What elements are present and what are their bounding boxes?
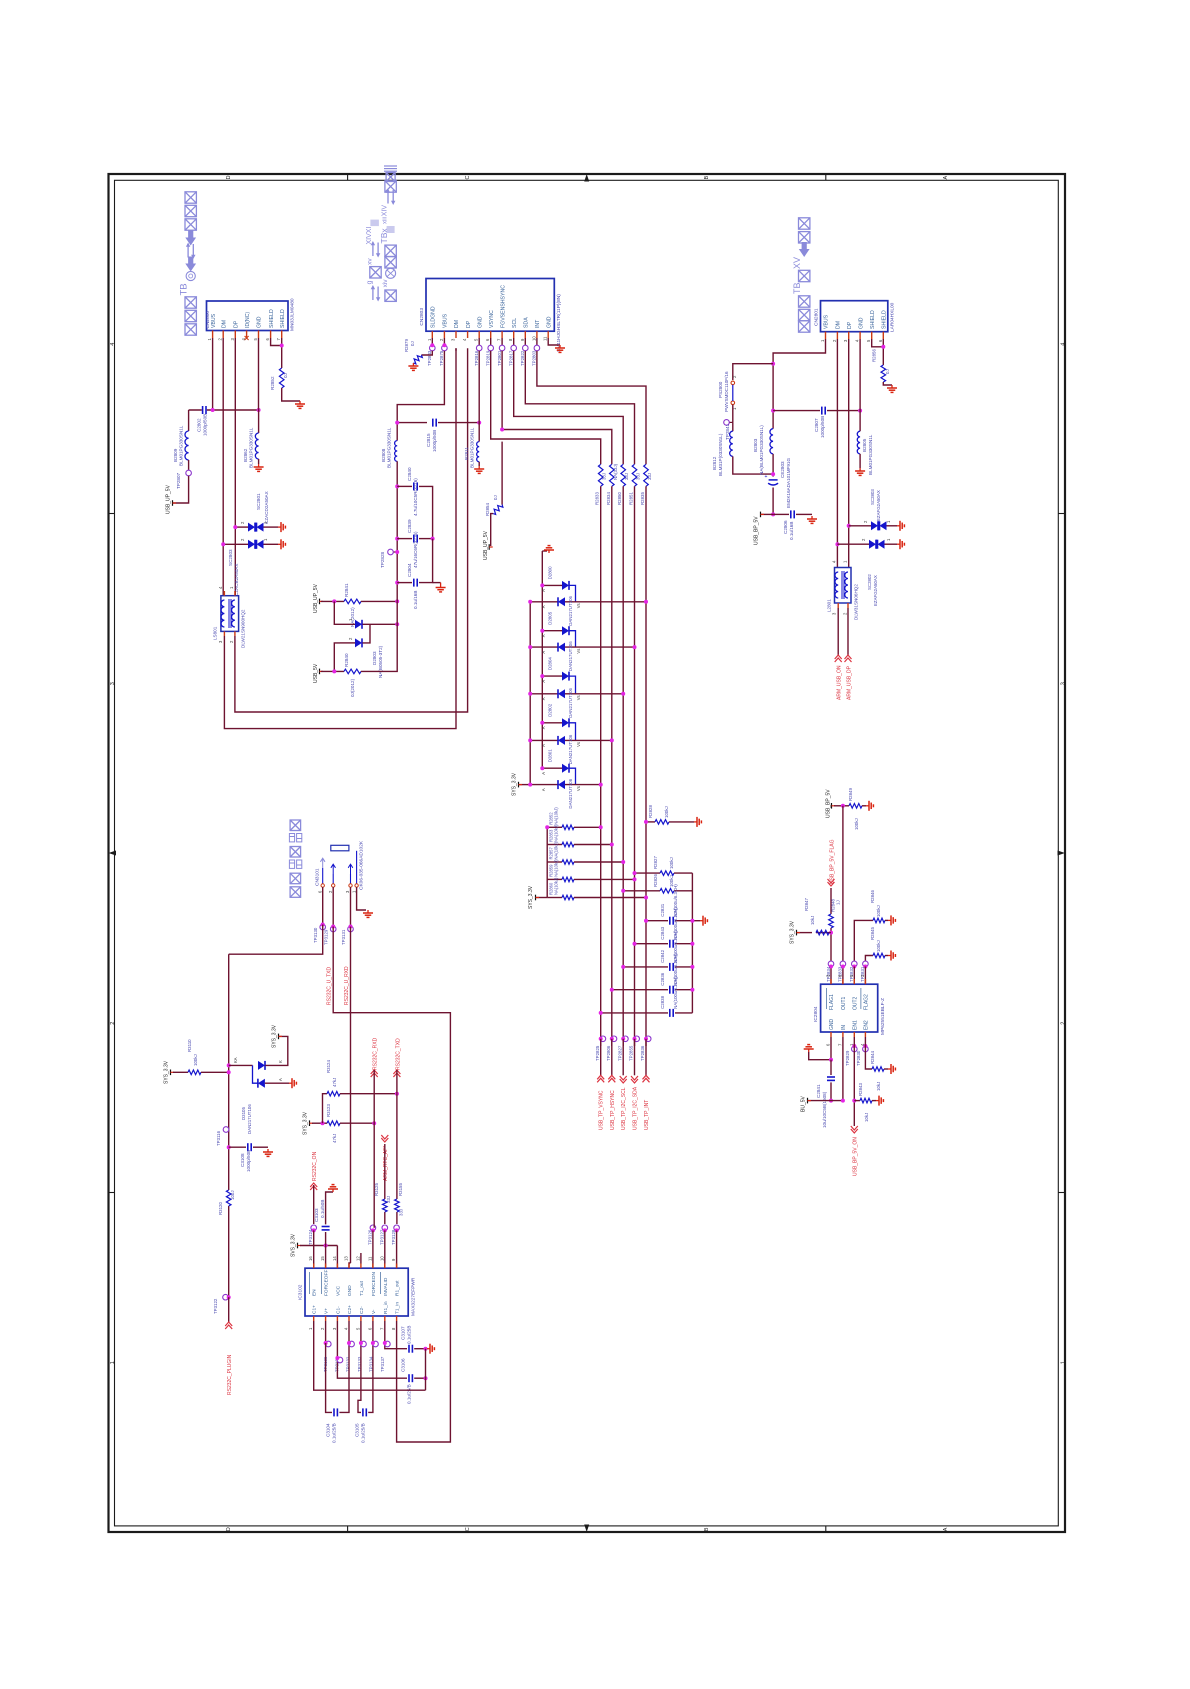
capacitor C2838 (601, 1012, 668, 1014)
junction (847, 524, 851, 528)
power net USB_BP_5V at IC2804 (831, 803, 833, 809)
junction (633, 645, 637, 649)
wire cap rail (691, 873, 693, 1013)
svg-text:DAN217UT106: DAN217UT106 (568, 595, 573, 625)
junction (771, 409, 775, 413)
ground (278, 526, 281, 528)
svg-text:B2812: B2812 (712, 456, 717, 470)
svg-text:ARM_RTC_AF*: ARM_RTC_AF* (383, 1146, 389, 1181)
test point TP2807 (188, 460, 190, 470)
svg-text:B2805: B2805 (862, 438, 867, 452)
dual diode D2804 (542, 675, 562, 677)
wire DM CN2800 pin2 (222, 338, 224, 596)
wire bus (502, 351, 612, 465)
svg-text:XIV: XIV (382, 205, 389, 217)
svg-text:2: 2 (1061, 1022, 1067, 1025)
svg-text:EZAFG2A50AX: EZAFG2A50AX (873, 575, 878, 606)
svg-text:C3107: C3107 (401, 1326, 406, 1340)
svg-text:GND: GND (858, 317, 864, 329)
wire (396, 1094, 398, 1199)
junction (227, 1063, 231, 1067)
svg-text:USB_BP_5V_ON: USB_BP_5V_ON (853, 1137, 859, 1176)
svg-text:TB: TB (179, 283, 190, 295)
junction (227, 1295, 231, 1299)
svg-text:Vs: Vs (576, 603, 581, 608)
svg-text:14: 14 (332, 1256, 337, 1261)
wire (384, 1144, 386, 1199)
junction (324, 1244, 328, 1248)
svg-text:SYS_3.3V: SYS_3.3V (303, 1111, 309, 1135)
svg-text:SYS_3.3V: SYS_3.3V (272, 1024, 278, 1048)
svg-text:XV: XV (792, 257, 802, 269)
wire bus (622, 486, 624, 1046)
svg-text:TP2801: TP2801 (497, 350, 502, 366)
svg-text:DAN217UT106: DAN217UT106 (568, 641, 573, 671)
wire bus (634, 486, 636, 1046)
junction (395, 550, 399, 554)
svg-text:D: D (226, 1527, 232, 1531)
ground (888, 955, 891, 957)
svg-text:B2809: B2809 (173, 448, 178, 462)
power net SYS_3.3V at R3123 (309, 1120, 311, 1126)
svg-text:C2806: C2806 (783, 520, 788, 534)
svg-text:B2862: B2862 (243, 448, 248, 462)
wire RXD (350, 927, 352, 1264)
placeholder text block 2 (384, 165, 397, 167)
wire pin7 (385, 1321, 407, 1349)
svg-text:CN2803: CN2803 (419, 308, 425, 326)
svg-text:DAN217UT106: DAN217UT106 (568, 734, 573, 764)
resistor R3125 (383, 1199, 388, 1212)
dual diode D2802 (542, 722, 562, 724)
svg-text:USB_BP_5V_FLAG: USB_BP_5V_FLAG (830, 839, 836, 884)
svg-text:NA(10kJ): NA(10kJ) (554, 877, 559, 895)
wire (312, 1122, 327, 1124)
wire FLAG1 net (830, 888, 832, 914)
power net USB_UP_5V at R2841 (319, 599, 321, 605)
svg-text:A: A (541, 772, 546, 775)
svg-text:NA(10kJ): NA(10kJ) (554, 841, 559, 859)
wire left rail (228, 954, 230, 1190)
svg-text:TP2832: TP2832 (849, 966, 854, 982)
svg-text:R2847: R2847 (804, 898, 809, 911)
wire bus (514, 351, 624, 465)
junction (500, 428, 504, 432)
junction (621, 692, 625, 696)
svg-text:B2803: B2803 (753, 438, 758, 452)
svg-text:C3104: C3104 (326, 1423, 331, 1437)
wire (313, 1230, 315, 1268)
frame tick (109, 1192, 115, 1194)
wire (334, 643, 340, 672)
wire pin2 (325, 1321, 327, 1341)
svg-text:TP2834: TP2834 (826, 966, 831, 982)
svg-text:T1_out: T1_out (359, 1280, 365, 1296)
junction (424, 1347, 428, 1351)
net label ARM_USB_ON (837, 608, 839, 655)
svg-text:A: A (541, 589, 546, 592)
svg-text:D2800: D2800 (548, 566, 553, 579)
ground (866, 805, 869, 807)
junction (621, 860, 625, 864)
svg-text:0.1u/16B: 0.1u/16B (789, 522, 794, 540)
svg-text:DM: DM (836, 321, 842, 329)
junction (395, 599, 399, 603)
resistor R2853 (547, 844, 562, 846)
svg-text:TP3124: TP3124 (308, 1229, 313, 1245)
svg-text:C: C (465, 1527, 471, 1531)
svg-text:DAN217UT106: DAN217UT106 (568, 778, 573, 808)
capacitor C2802 (202, 409, 207, 411)
wire TXD loop (333, 927, 450, 1443)
power net SYS_3.3V at R3110 (170, 1070, 172, 1076)
svg-text:C2836: C2836 (660, 972, 665, 985)
svg-text:TP2819: TP2819 (486, 350, 491, 366)
junction (690, 988, 694, 992)
svg-text:4.7u/10C5R(3216): 4.7u/10C5R(3216) (413, 478, 418, 516)
junction (599, 1011, 603, 1015)
junction (424, 1376, 428, 1380)
svg-text:A: A (541, 680, 546, 683)
svg-text:BLM01PG330SN1L: BLM01PG330SN1L (249, 427, 254, 468)
test point TP2841 (732, 405, 734, 423)
junction (599, 1037, 603, 1041)
svg-text:FLAG1: FLAG1 (829, 994, 835, 1010)
svg-text:TP2822: TP2822 (520, 350, 525, 366)
svg-text:USB_UP_5V: USB_UP_5V (166, 484, 172, 514)
electrolytic capacitor CE2803 (772, 479, 774, 485)
test point TP3122 (223, 1294, 229, 1300)
svg-text:TP2827: TP2827 (617, 1045, 622, 1061)
svg-text:USB_TP_HSYNC: USB_TP_HSYNC (610, 1090, 616, 1130)
capacitor C3106 (408, 1377, 413, 1379)
power net SYS_3.3V at R2847 (797, 932, 812, 934)
svg-text:R2828: R2828 (648, 805, 653, 818)
ground (299, 401, 301, 404)
capacitor C2831 (646, 920, 668, 922)
wire DP CN2801 (848, 339, 850, 568)
svg-text:C1+: C1+ (312, 1305, 318, 1314)
svg-text:33J: 33J (624, 473, 629, 480)
svg-text:10u/10C5B(1608): 10u/10C5B(1608) (822, 1091, 827, 1128)
svg-text:R2835: R2835 (640, 492, 645, 505)
test point TP2801 (501, 338, 503, 345)
ferrite bead B2809 (185, 431, 189, 460)
svg-text:47u/16C6R(3216): 47u/16C6R(3216) (413, 531, 418, 568)
power net SYS_3.3V diode rail (519, 784, 530, 786)
svg-text:DP: DP (847, 321, 853, 329)
junction (633, 1037, 637, 1041)
svg-text:IC2804: IC2804 (813, 1006, 819, 1022)
svg-text:PWVSMDC110F/16: PWVSMDC110F/16 (724, 371, 729, 412)
junction (633, 942, 637, 946)
net label USB_TP_I2C_SCL (622, 1039, 624, 1076)
test point TP2830 (863, 1046, 869, 1052)
no-connect pin4 CN2800 (245, 336, 249, 340)
wire (321, 600, 344, 602)
svg-text:xv: xv (367, 258, 374, 265)
svg-text:C2841: C2841 (816, 1084, 821, 1098)
wire OUT1 net (842, 806, 844, 984)
resistor R2852 (279, 368, 284, 388)
svg-text:XIVXI: XIVXI (366, 227, 373, 245)
junction (477, 421, 481, 425)
svg-text:TP2841: TP2841 (725, 423, 730, 440)
wire pin6 (368, 1321, 373, 1412)
svg-text:10kJ: 10kJ (864, 1113, 869, 1122)
svg-text:C2840: C2840 (407, 467, 412, 481)
svg-text:RS232C_TXD: RS232C_TXD (396, 1038, 402, 1070)
test point TP3131 (350, 887, 352, 926)
junction (332, 599, 336, 603)
svg-text:SYS_3.3V: SYS_3.3V (790, 920, 796, 944)
power net USB_UP_5V (172, 500, 174, 506)
ground (427, 1348, 430, 1350)
resistor R2833 (598, 464, 603, 486)
svg-text:33J: 33J (399, 1209, 404, 1216)
junction (372, 1121, 376, 1125)
svg-text:1: 1 (110, 1361, 116, 1364)
resistor R3110 (188, 1070, 201, 1075)
test point TP2822 (524, 338, 526, 345)
wire (372, 1230, 374, 1268)
frame tick (109, 513, 115, 515)
test point TP3129 (332, 887, 334, 926)
connector CN2801 (821, 301, 888, 332)
svg-text:DP: DP (234, 320, 240, 328)
svg-text:0J: 0J (885, 369, 890, 374)
junction (349, 925, 353, 929)
svg-text:3: 3 (1061, 682, 1067, 685)
svg-text:TP2875: TP2875 (439, 350, 444, 366)
svg-text:C2843: C2843 (660, 926, 665, 939)
junction (771, 472, 775, 476)
junction (395, 421, 399, 425)
svg-text:ARM_USB_ON: ARM_USB_ON (837, 665, 843, 700)
svg-text:SYS_3.3V: SYS_3.3V (164, 1060, 170, 1084)
dual diode D2801 (542, 767, 562, 769)
svg-text:DLW21SN900HQ2: DLW21SN900HQ2 (241, 609, 246, 648)
svg-text:1000p/50B: 1000p/50B (246, 1150, 251, 1172)
junction (280, 344, 284, 348)
junction (621, 965, 625, 969)
junction (841, 804, 845, 808)
junction (852, 965, 856, 969)
svg-text:R3155: R3155 (398, 1183, 403, 1196)
svg-text:TP3130: TP3130 (313, 927, 318, 943)
ground (897, 543, 900, 545)
test point TP2875 (443, 338, 445, 345)
svg-text:USB_BP_5V: USB_BP_5V (754, 516, 760, 545)
resistor R2844 (872, 1067, 884, 1072)
svg-text:NA(100u/6.3CH): NA(100u/6.3CH) (673, 976, 678, 1009)
svg-text:MP62551EBLF-Z: MP62551EBLF-Z (880, 998, 886, 1035)
svg-text:100kJ: 100kJ (854, 818, 859, 830)
svg-text:0J: 0J (410, 341, 415, 346)
svg-text:g: g (367, 280, 374, 284)
capacitor C2840 (397, 485, 412, 487)
wire pull-up rail (546, 827, 548, 897)
svg-text:0J(2012): 0J(2012) (350, 678, 355, 697)
IC IC3102 (305, 1268, 408, 1316)
resistor R3120 (226, 1190, 231, 1206)
svg-text:A: A (541, 634, 546, 637)
junction (863, 1044, 867, 1048)
junction (395, 581, 399, 585)
svg-text:CZACD2A50AX: CZACD2A50AX (264, 491, 269, 524)
junction (227, 1145, 231, 1149)
test point TP2829 (852, 1046, 858, 1052)
svg-text:B2808: B2808 (381, 448, 386, 462)
svg-text:R2854: R2854 (485, 503, 490, 516)
svg-text:xiv: xiv (382, 279, 389, 288)
junction (841, 965, 845, 969)
ground (267, 1149, 269, 1152)
junction (829, 1099, 833, 1103)
power net SYS_3.3V at D3105 (278, 1034, 280, 1040)
svg-text:D2804: D2804 (548, 657, 553, 670)
svg-text:USB_TP_INT: USB_TP_INT (644, 1100, 650, 1130)
svg-text:SM11HJGHSLTR(11P)(8N): SM11HJGHSLTR(11P)(8N) (556, 294, 562, 352)
svg-text:R2841: R2841 (344, 583, 349, 597)
resistor R2860 (547, 897, 562, 899)
resistor R2851 (632, 464, 637, 486)
junction (221, 542, 225, 546)
svg-text:Vs: Vs (576, 742, 581, 747)
svg-text:NA(BLM01PG330SN1L): NA(BLM01PG330SN1L) (759, 425, 764, 475)
svg-text:2: 2 (110, 1022, 116, 1025)
wire LS801 pin3 loop (224, 348, 456, 728)
svg-text:GND: GND (546, 316, 552, 328)
svg-text:R2844: R2844 (870, 1051, 875, 1064)
capacitor C2842 (623, 966, 668, 968)
placeholder text block 1 (185, 192, 196, 203)
svg-text:R2850: R2850 (617, 492, 622, 505)
capacitor C3103 (325, 1232, 327, 1246)
junction (858, 409, 862, 413)
wire plugin sense (229, 925, 323, 955)
test point TP2833 (840, 961, 846, 967)
svg-text:BLM31P(0330SN1L): BLM31P(0330SN1L) (718, 433, 723, 476)
wire (772, 488, 774, 515)
svg-text:SC2802: SC2802 (867, 574, 872, 590)
svg-text:0.1u/50B: 0.1u/50B (320, 1200, 325, 1218)
svg-text:A: A (943, 176, 949, 180)
svg-text:NA(10kJ): NA(10kJ) (554, 824, 559, 842)
junction (211, 408, 215, 412)
svg-text:LS801: LS801 (213, 626, 218, 640)
ground (888, 1068, 891, 1070)
wire DP CN2800 pin3 (234, 338, 236, 596)
svg-text:4: 4 (1061, 343, 1067, 346)
junction (690, 919, 694, 923)
resistor R3155 (395, 1199, 400, 1212)
junction (829, 931, 833, 935)
net label USB_TP_INT (645, 1039, 647, 1076)
fuse PS2800 (731, 381, 735, 385)
svg-text:FLAG2: FLAG2 (863, 994, 869, 1010)
ground (332, 1189, 334, 1192)
svg-text:RS232C_PLUGIN: RS232C_PLUGIN (227, 1354, 233, 1395)
junction (528, 783, 532, 787)
svg-text:MAX3227EFPWR: MAX3227EFPWR (411, 1277, 417, 1316)
svg-text:C3105: C3105 (354, 1423, 359, 1437)
net label USB_TP_HSYNC (611, 1039, 613, 1076)
svg-text:NA(B0505-3T2): NA(B0505-3T2) (378, 645, 383, 678)
wire GND pin6 (809, 1037, 831, 1060)
junction (312, 1228, 316, 1232)
IC IC2804 (821, 984, 878, 1032)
svg-text:TP3132: TP3132 (346, 1356, 351, 1372)
capacitor C3107 (408, 1348, 413, 1350)
svg-text:SYS_3.3V: SYS_3.3V (512, 772, 518, 796)
svg-text:PS2800: PS2800 (718, 381, 723, 398)
svg-text:CE2803: CE2803 (780, 461, 785, 478)
test point TP2836 (645, 1036, 651, 1042)
junction (690, 942, 694, 946)
junction (771, 512, 775, 516)
resistor R2845 (865, 956, 873, 964)
test point TP2816 (478, 338, 480, 345)
wire to shield ground (282, 388, 300, 401)
svg-text:Vs: Vs (576, 695, 581, 700)
svg-text:3: 3 (110, 682, 116, 685)
svg-text:C2838: C2838 (660, 995, 665, 1008)
svg-text:SLDGND: SLDGND (431, 306, 437, 328)
junction (331, 925, 335, 929)
dual diode SC2803a (223, 543, 248, 545)
ground (859, 468, 861, 471)
resistor R2843 (854, 1100, 860, 1102)
resistor R3124 (327, 1091, 340, 1096)
junction (528, 738, 532, 742)
junction (540, 766, 544, 770)
wire GND CN2801 pin4 (859, 339, 861, 431)
svg-text:D2805: D2805 (548, 611, 553, 624)
resistor R2848 (829, 914, 834, 928)
svg-text:SHIELD: SHIELD (882, 310, 888, 329)
ferrite bead B2808 (395, 441, 398, 462)
junction (829, 1058, 833, 1062)
resistor R2846 (854, 920, 873, 963)
svg-text:D2802: D2802 (548, 703, 553, 716)
svg-text:L2801: L2801 (827, 599, 832, 612)
svg-text:FORCEOFF: FORCEOFF (324, 1270, 330, 1296)
capacitor C3104 (333, 1411, 338, 1413)
svg-text:33J: 33J (386, 1196, 391, 1203)
svg-text:K: K (278, 1060, 283, 1063)
junction (332, 669, 336, 673)
wire pin3 to C3106 (337, 1375, 407, 1378)
frame center arrow right (1058, 851, 1066, 856)
svg-text:GND: GND (477, 316, 483, 328)
junction (227, 1070, 231, 1074)
svg-text:0J: 0J (493, 495, 498, 500)
junction (371, 1341, 375, 1345)
svg-text:TB: TB (792, 282, 802, 294)
svg-text:C2839: C2839 (407, 519, 412, 533)
svg-text:NA(10kJ): NA(10kJ) (554, 807, 559, 825)
ground (412, 363, 414, 366)
svg-text:C2804: C2804 (407, 563, 412, 577)
wire bus (525, 351, 634, 465)
ground (367, 910, 369, 913)
junction (852, 1044, 856, 1048)
wire SHIELD pins (872, 339, 884, 347)
svg-text:USB_UP_5V: USB_UP_5V (483, 530, 489, 560)
wire RXD to pin13 (349, 1263, 351, 1268)
test point TP2832 (852, 961, 858, 967)
